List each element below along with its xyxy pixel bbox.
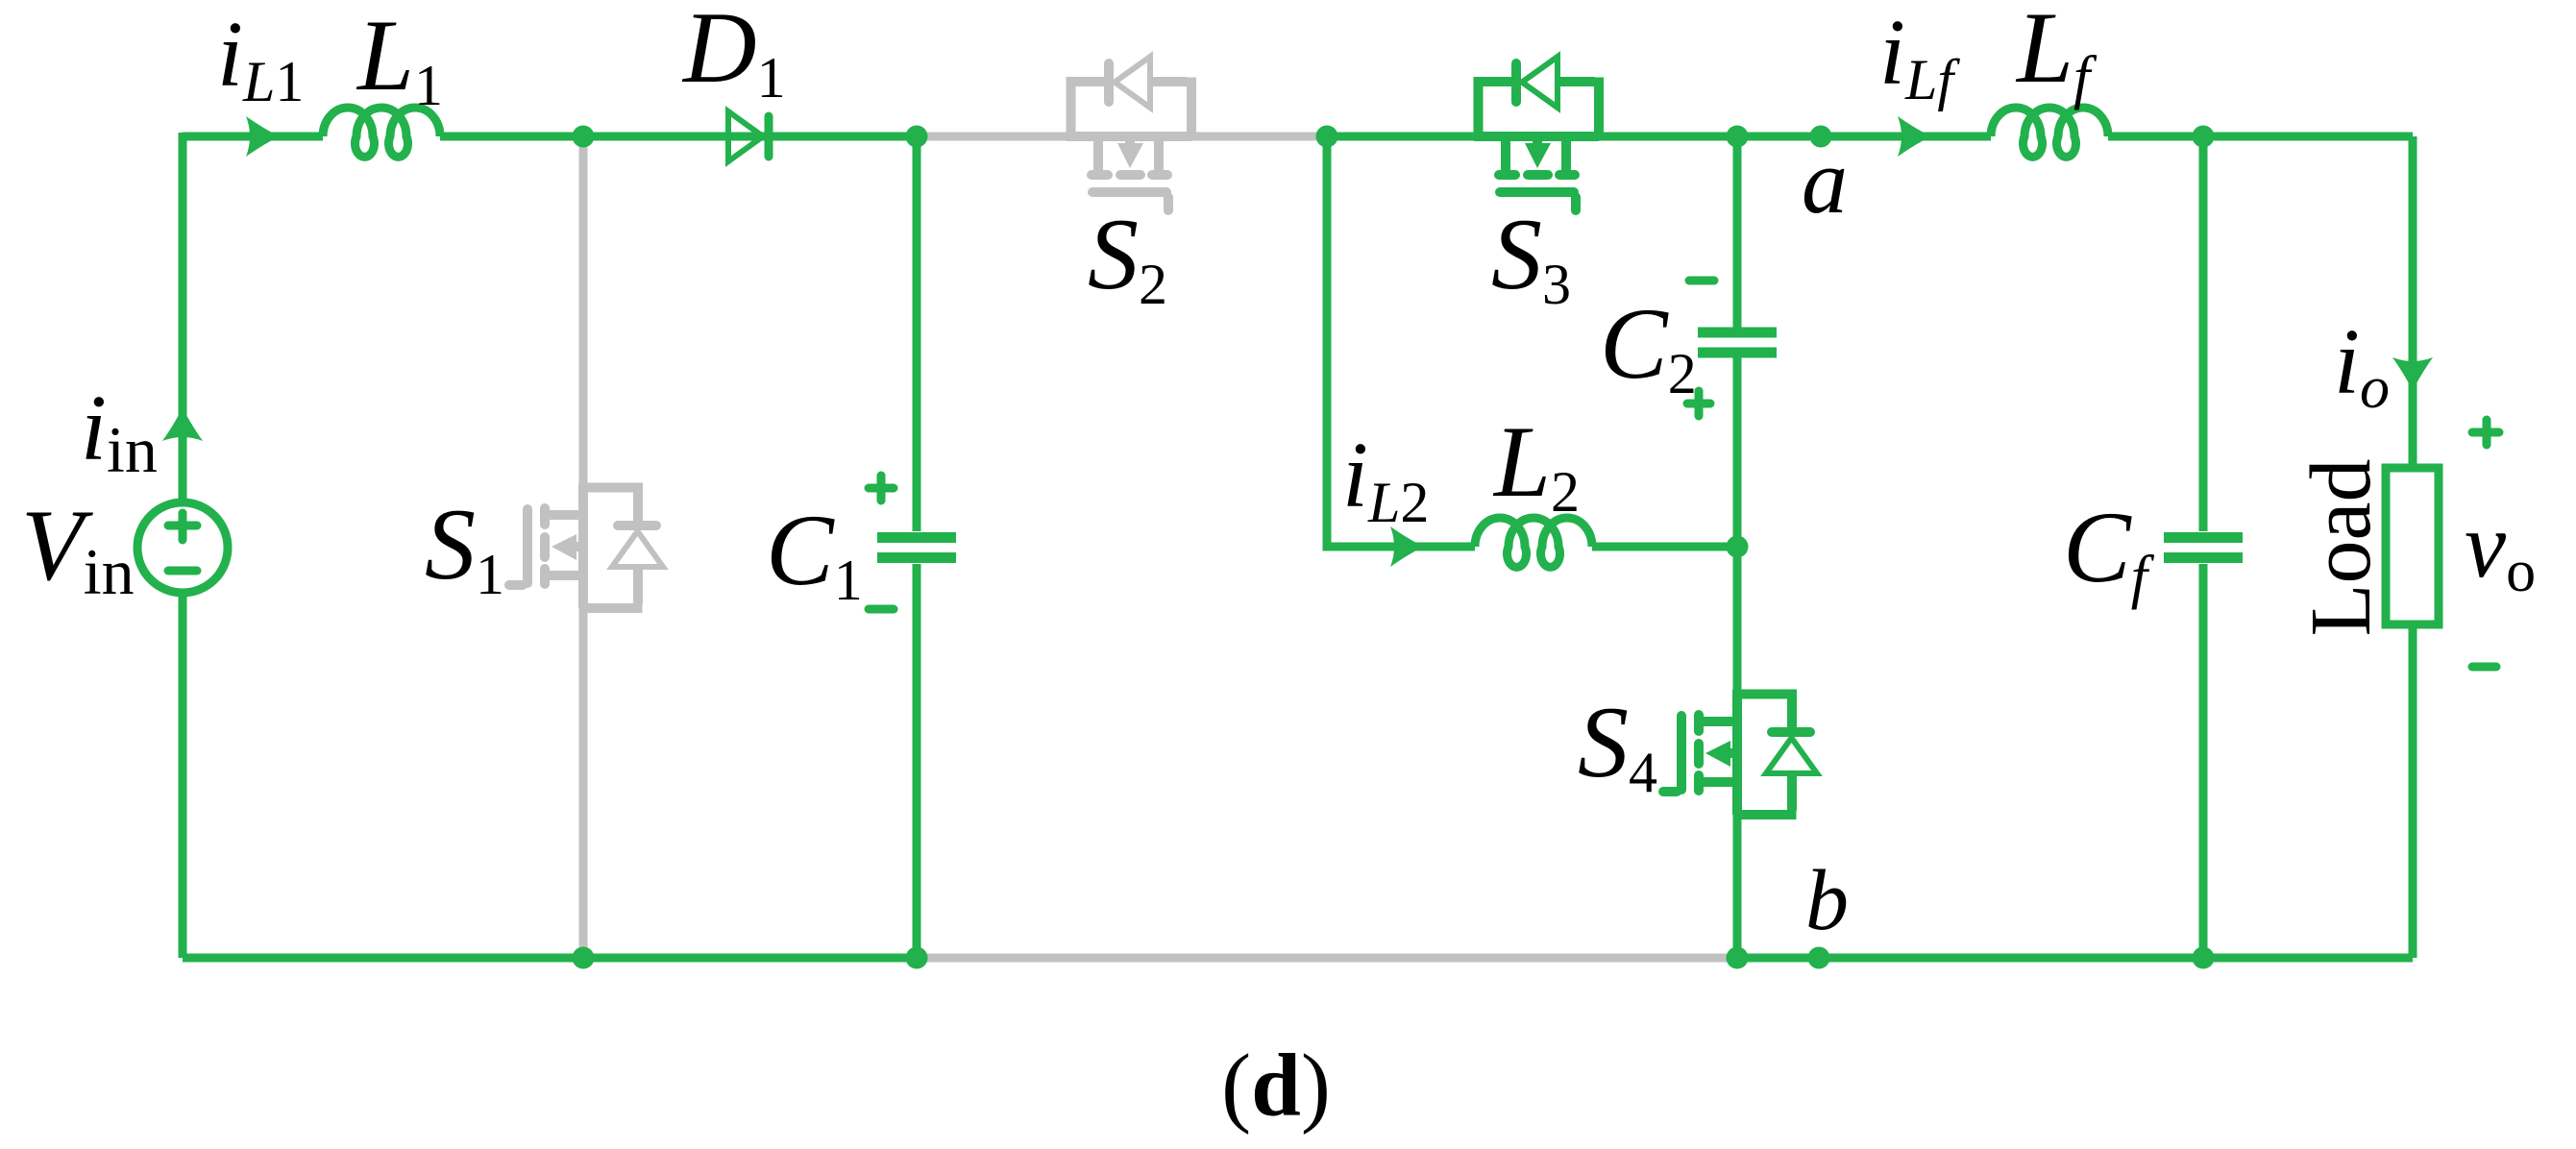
polarity marks vo [2472,420,2499,667]
polarity marks C1 [869,476,894,609]
transistor S3 (green MOSFET, rotated on top bus) [1474,57,1599,210]
polarity marks C2 [1687,281,1714,416]
wire right rail / load branch [2409,136,2417,958]
wire node1381 branch down to L2 [1327,136,1475,547]
wire top bus gray segment C1-to-S2-to-node1381 [917,133,1327,141]
svg-text:(d): (d) [1221,1037,1331,1136]
wire bottom bus left green [183,954,917,963]
current arrow iL2 [1390,526,1424,567]
svg-text:Load: Load [2294,459,2389,637]
wire top bus after L1 to C1 [440,133,920,141]
diode D1 [728,111,769,161]
inductor Lf [1991,108,2108,157]
wire Cf branch [2199,136,2208,958]
svg-text:iLf: iLf [1879,1,1960,111]
current arrow iin (up) [162,407,203,441]
transistor S1 (gray MOSFET with body diode) [509,483,663,608]
svg-text:Lf: Lf [2015,0,2098,110]
wire C1 branch [913,136,921,958]
svg-text:S4: S4 [1578,686,1657,804]
svg-text:iL1: iL1 [217,3,304,113]
svg-text:io: io [2334,310,2390,421]
capacitor C1 [877,538,956,558]
svg-text:a: a [1802,130,1848,232]
inductor L2 [1475,518,1592,567]
svg-text:L2: L2 [1492,405,1580,524]
svg-text:S3: S3 [1491,198,1571,316]
wire L2 to C2/S4 branch [1592,543,1737,551]
svg-text:Cf: Cf [2063,491,2155,610]
svg-text:L1: L1 [356,0,443,117]
current arrow iLf [1898,116,1931,157]
current arrow iL1 [246,116,280,157]
svg-text:C1: C1 [766,494,863,612]
wire top bus node1381 to Lf [1323,133,1991,141]
svg-text:iin: iin [81,377,158,486]
transistor S2 (gray MOSFET with body diode, rotated on top bus) [1067,57,1191,210]
svg-text:S1: S1 [425,488,504,606]
wire bottom bus gray segment C1-to-S4 [917,954,1737,963]
capacitor C2 [1698,332,1777,353]
capacitor Cf [2164,538,2243,558]
svg-text:C2: C2 [1600,287,1697,405]
current arrow io (down) [2392,357,2433,391]
wire left rail [179,133,187,958]
wire S4 branch [1733,547,1742,958]
wire C2 branch [1733,136,1742,547]
svg-text:Vin: Vin [21,489,135,608]
wire S1 branch vertical gray [579,136,588,958]
transistor S4 (green MOSFET) [1663,690,1817,815]
svg-text:D1: D1 [681,0,786,110]
wire top bus left green [183,133,323,141]
inductor L1 [323,108,440,157]
voltage source Vin [137,502,228,593]
svg-text:vo: vo [2465,494,2536,604]
svg-text:iL2: iL2 [1342,424,1429,534]
svg-text:S2: S2 [1088,198,1167,316]
load resistor rectangle [2386,468,2439,624]
wire bottom bus right green [1737,954,2413,963]
wire top bus after Lf to top-right corner [2108,133,2413,141]
svg-text:b: b [1805,853,1849,948]
